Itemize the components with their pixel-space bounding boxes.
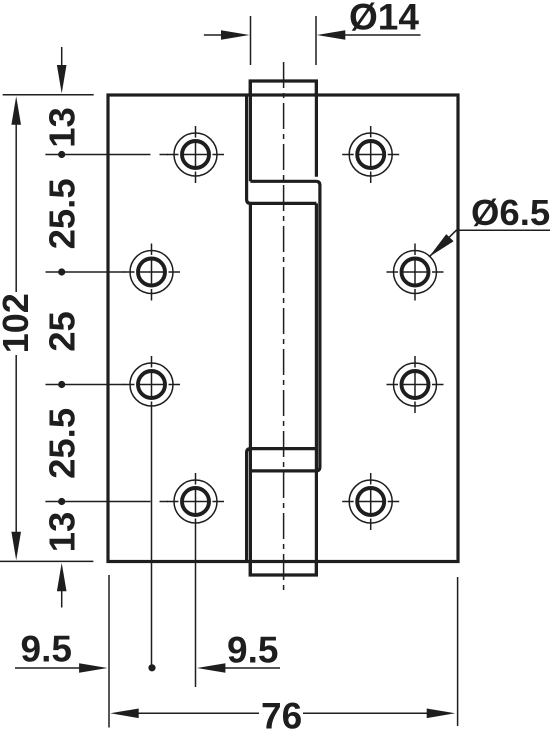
svg-text:102: 102 xyxy=(0,293,36,353)
barrel top cap xyxy=(250,81,316,95)
screw hole H3 crosshair xyxy=(123,271,180,273)
row 1 center line extension xyxy=(45,154,150,156)
screw hole H5 crosshair xyxy=(123,384,180,386)
screw hole H2 outer xyxy=(349,133,392,176)
102 dimension line xyxy=(15,120,17,292)
svg-text:76: 76 xyxy=(261,696,302,731)
plate right edge extension xyxy=(457,577,459,726)
hinge plate outline xyxy=(108,95,458,562)
screw hole H8 bore xyxy=(357,488,384,515)
chain node dot row 3 xyxy=(58,381,65,388)
screw hole H8 crosshair xyxy=(342,501,399,503)
screw hole H1 bore xyxy=(182,141,209,168)
column line inner to 9.5 arrow xyxy=(195,530,197,687)
screw hole H4 crosshair xyxy=(387,271,444,273)
screw hole H6 outer xyxy=(394,363,437,406)
svg-text:9.5: 9.5 xyxy=(21,628,72,669)
chain node dot row 1 xyxy=(58,151,65,158)
svg-text:9.5: 9.5 xyxy=(227,630,278,671)
hinge pin centerline xyxy=(283,62,285,591)
76 arrow right xyxy=(427,709,456,719)
row 2 center line extension xyxy=(46,271,125,273)
102 extension line top xyxy=(3,94,94,96)
screw hole H3 bore xyxy=(138,259,165,286)
screw hole H2 bore xyxy=(357,141,384,168)
screw hole H5 bore xyxy=(138,371,165,398)
screw hole H4 outer xyxy=(394,251,437,294)
top knuckle right silhouette xyxy=(315,81,318,177)
102 arrow up xyxy=(11,96,21,125)
dia 6.5 leader arrow xyxy=(429,234,454,257)
screw hole H6 crosshair xyxy=(387,384,444,386)
screw hole H7 outer xyxy=(174,480,217,523)
screw hole H1 crosshair xyxy=(167,154,224,156)
left leaf edge upper segment with corner into joint 1 xyxy=(247,95,317,203)
screw hole H5 outer xyxy=(130,363,173,406)
screw hole H3 outer xyxy=(130,251,173,294)
top knuckle left silhouette xyxy=(249,81,252,181)
screw hole H8 outer xyxy=(349,480,392,523)
row 3 center line extension xyxy=(46,384,125,386)
screw hole H4 bore xyxy=(402,259,429,286)
screw hole H1 outer xyxy=(174,133,217,176)
76 dimension line xyxy=(138,712,259,714)
dia 14 dimension line right with arrow xyxy=(344,34,421,36)
chain node dot row 4 xyxy=(58,498,65,505)
102 arrow down xyxy=(11,532,21,561)
9.5 left dimension line with arrow xyxy=(15,667,80,669)
screw hole H7 bore xyxy=(182,488,209,515)
102 extension line bottom xyxy=(0,560,93,562)
chain dimension bottom arrow xyxy=(61,589,63,608)
76 arrow left xyxy=(110,709,139,719)
joint 1 upper line, right leaf edge, joint 2 lower line xyxy=(250,181,320,471)
svg-text:Ø6.5: Ø6.5 xyxy=(471,192,550,233)
chain node dot bottom xyxy=(148,664,155,671)
chain dimension top arrow xyxy=(61,47,63,66)
plate left edge extension xyxy=(108,575,110,728)
barrel bottom cap xyxy=(250,562,316,576)
screw hole H2 crosshair xyxy=(342,154,399,156)
svg-text:13: 13 xyxy=(42,512,83,553)
dia 6.5 leader line xyxy=(429,230,550,257)
screw hole H7 crosshair xyxy=(167,501,224,503)
chain node dot row 2 xyxy=(58,268,65,275)
row 4 center line extension xyxy=(45,501,150,503)
column line to 9.5 chain dot xyxy=(151,413,153,665)
svg-text:25.5: 25.5 xyxy=(42,408,83,479)
joint 2 upper line with corner into left leaf edge lower segment xyxy=(247,449,317,562)
middle and bottom knuckle left silhouette xyxy=(249,203,252,575)
extension line for dia 14 right xyxy=(315,16,317,65)
dia 14 dimension line left with arrow xyxy=(204,34,222,36)
9.5 right dimension line with arrow xyxy=(224,667,280,669)
middle and bottom knuckle right silhouette xyxy=(315,203,318,575)
screw hole H6 bore xyxy=(402,371,429,398)
svg-text:Ø14: Ø14 xyxy=(349,0,419,38)
extension line for dia 14 left xyxy=(250,16,252,65)
svg-text:25: 25 xyxy=(42,311,83,352)
svg-text:13: 13 xyxy=(42,107,83,148)
svg-text:25.5: 25.5 xyxy=(42,178,83,249)
